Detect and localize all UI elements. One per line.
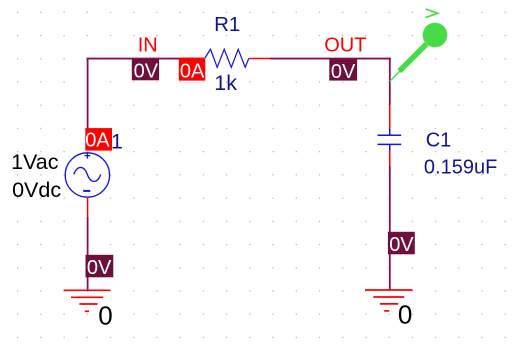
bias voltage badge 0V at OUT [329, 59, 357, 83]
svg-text:1: 1 [111, 129, 123, 153]
label C1 value 0.159uF [424, 156, 497, 178]
svg-text:0A: 0A [180, 61, 205, 83]
bias voltage badge 0V below V1 [86, 255, 114, 279]
label ground left 0 [98, 301, 112, 331]
svg-text:IN: IN [138, 34, 158, 56]
wire right vertical lower [389, 166, 391, 290]
svg-text:1Vac: 1Vac [11, 150, 59, 174]
svg-text:0V: 0V [134, 61, 159, 83]
bias current badge 0A at V1 [85, 128, 112, 151]
svg-text:0A: 0A [85, 130, 110, 152]
wire top horizontal right (OUT net) [270, 58, 391, 60]
label V1 refdes (V hidden, shows 1) [111, 129, 123, 153]
svg-text:0: 0 [98, 301, 112, 331]
bias voltage badge 0V above right ground [388, 232, 415, 256]
label C1 refdes [426, 129, 452, 151]
resistor R1 [180, 49, 270, 67]
svg-text:0V: 0V [389, 234, 414, 256]
svg-text:C1: C1 [426, 129, 452, 151]
wire left vertical upper [87, 58, 89, 131]
wire right vertical upper [389, 58, 391, 106]
svg-text:R1: R1 [214, 13, 240, 36]
ground left [64, 290, 111, 311]
capacitor C1 [378, 105, 402, 167]
net label OUT [324, 35, 366, 57]
voltage probe marker [390, 9, 448, 81]
label R1 refdes [214, 13, 240, 36]
wire top horizontal left (IN net) [87, 58, 204, 60]
bias current badge 0A at R1 [179, 59, 206, 83]
ground right [365, 290, 413, 311]
voltage source V1 [65, 131, 109, 217]
svg-text:0V: 0V [331, 61, 356, 83]
label V1 value 1Vac [11, 150, 59, 174]
svg-text:0: 0 [398, 300, 412, 330]
svg-text:0V: 0V [87, 257, 112, 279]
label V1 value 0Vdc [12, 178, 61, 202]
wire left vertical lower [87, 217, 89, 290]
svg-text:0Vdc: 0Vdc [12, 178, 61, 202]
svg-text:1k: 1k [214, 71, 237, 95]
net label IN [138, 34, 158, 56]
label ground right 0 [398, 300, 412, 330]
bias voltage badge 0V at IN [132, 59, 159, 83]
label R1 value 1k [214, 71, 237, 95]
svg-text:0.159uF: 0.159uF [424, 156, 497, 178]
svg-text:OUT: OUT [324, 35, 366, 57]
